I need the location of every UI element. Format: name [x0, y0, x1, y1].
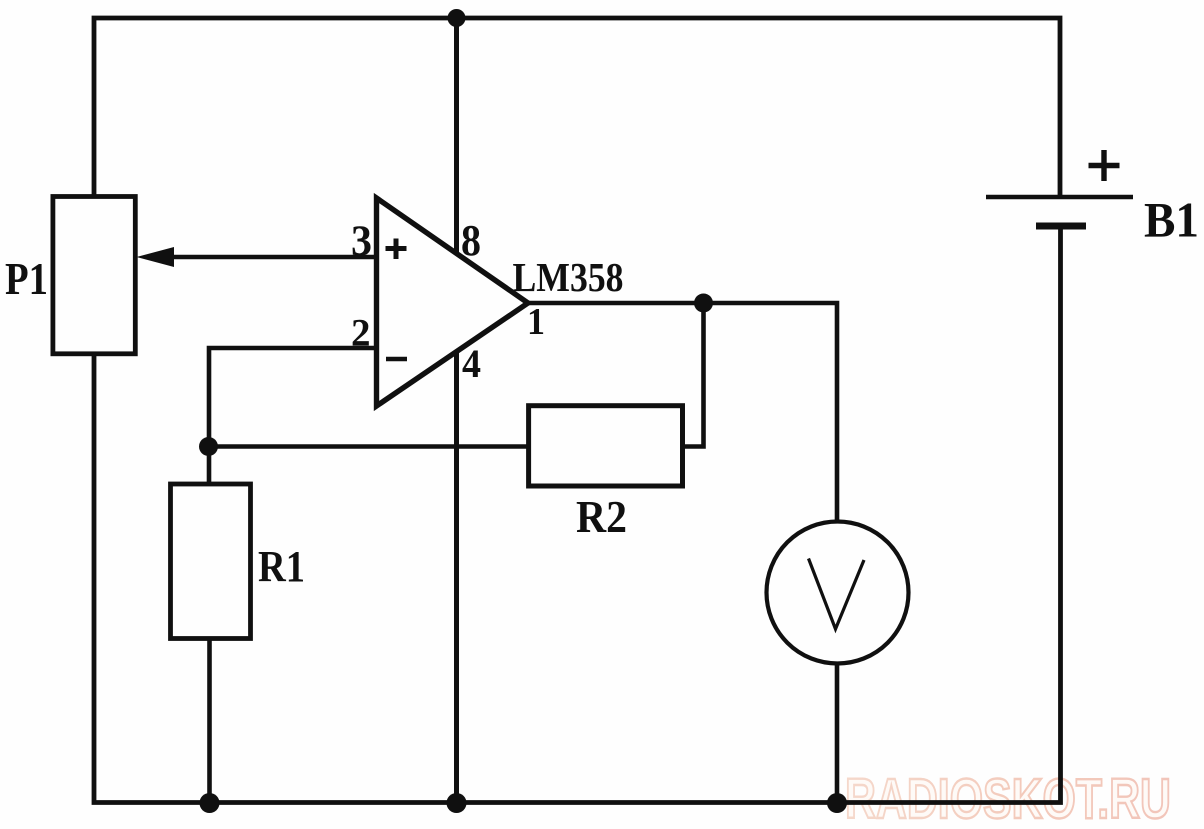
svg-text:RADIOSKOT.RU: RADIOSKOT.RU	[845, 767, 1171, 829]
wire voltmeter bottom to ground rail	[835, 662, 840, 803]
node: output feedback junction	[694, 294, 713, 313]
wire pin 2 to node A	[209, 348, 377, 442]
op-amp U1 triangle	[377, 198, 529, 406]
voltmeter V mark	[809, 559, 865, 630]
resistor R2 body	[529, 406, 683, 486]
svg-text:R2: R2	[576, 492, 627, 542]
resistor R1 body	[171, 484, 251, 639]
potentiometer P1 body	[53, 197, 135, 354]
svg-text:4: 4	[462, 341, 481, 386]
battery B1 short plate	[1036, 223, 1086, 230]
node: top junction	[448, 9, 466, 27]
voltmeter V1 circle	[767, 522, 909, 664]
node: ground rail at R1	[200, 793, 220, 813]
wire bottom rail: P1 bottom, left side, bottom, right side up to B1 minus	[94, 226, 1061, 803]
svg-text:3: 3	[351, 218, 372, 265]
op-amp minus input mark	[386, 357, 407, 362]
svg-text:2: 2	[351, 312, 371, 355]
svg-text:P1: P1	[5, 254, 48, 304]
wire top rail: P1 top to B1 plus terminal	[94, 18, 1060, 197]
wire R2 right stub up to output	[683, 303, 704, 447]
wire main vertical upper (pin 8 supply)	[454, 18, 459, 254]
battery B1 plus sign	[1089, 150, 1120, 181]
wire main vertical lower (pin 4 to ground rail)	[454, 352, 459, 803]
node: ground rail at voltmeter	[827, 793, 847, 813]
wiper arrowhead	[137, 247, 175, 267]
wire op-amp output to voltmeter top	[528, 303, 837, 523]
wire R1 bottom to ground rail	[207, 639, 212, 803]
svg-text:R1: R1	[258, 542, 305, 591]
svg-text:LM358: LM358	[513, 254, 624, 300]
node A: inverting input junction	[199, 437, 218, 456]
node: ground rail at main vertical	[447, 793, 467, 813]
svg-text:8: 8	[461, 216, 481, 265]
battery B1 long plate	[986, 195, 1133, 200]
svg-text:B1: B1	[1144, 192, 1199, 248]
svg-text:1: 1	[527, 301, 545, 343]
wire pin 3 to P1 wiper	[170, 255, 377, 260]
op-amp plus input mark	[386, 239, 407, 260]
wire node A to R2 left	[209, 444, 529, 449]
wire node A to R1 top	[207, 447, 212, 485]
